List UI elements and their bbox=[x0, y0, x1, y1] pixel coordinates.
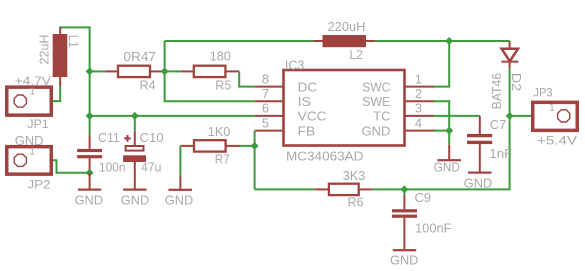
svg-text:VCC: VCC bbox=[298, 109, 327, 124]
pin 8 stub bbox=[255, 86, 284, 88]
inductor L1 bbox=[53, 27, 68, 86]
svg-text:1K0: 1K0 bbox=[208, 124, 231, 139]
wire top rail right bbox=[376, 40, 510, 42]
svg-text:GND: GND bbox=[15, 133, 44, 148]
wire node B down to pin 7 bbox=[165, 71, 255, 101]
wire output feedback right bbox=[404, 116, 509, 189]
node output junction bbox=[506, 112, 514, 120]
svg-text:FB: FB bbox=[298, 123, 316, 138]
resistor R4 bbox=[105, 66, 164, 77]
wire D2 to output node bbox=[509, 68, 511, 116]
svg-text:7: 7 bbox=[262, 86, 269, 101]
wire SWE to gnd node bbox=[434, 101, 449, 130]
svg-text:SWC: SWC bbox=[362, 79, 390, 94]
connector JP3 bbox=[533, 102, 578, 130]
svg-text:IS: IS bbox=[298, 94, 312, 109]
svg-text:R4: R4 bbox=[140, 78, 156, 93]
svg-text:JP3: JP3 bbox=[533, 86, 552, 100]
svg-text:SWE: SWE bbox=[362, 94, 390, 109]
op-amp IC3 MC34063AD box bbox=[284, 70, 405, 146]
svg-text:C11: C11 bbox=[98, 130, 120, 145]
pin 5 stub bbox=[255, 130, 284, 132]
svg-text:4: 4 bbox=[415, 115, 422, 130]
wire node A down to VCC row bbox=[89, 71, 91, 116]
svg-text:GND: GND bbox=[165, 192, 193, 207]
wire C10 top pin bbox=[134, 116, 136, 131]
resistor R7 bbox=[180, 140, 240, 151]
ground below pin 4 bbox=[438, 131, 461, 162]
resistor R5 bbox=[181, 66, 239, 77]
node A junction bbox=[86, 67, 94, 75]
wire node B up to top rail bbox=[164, 41, 166, 71]
node SWC junction bbox=[445, 37, 453, 45]
svg-text:3: 3 bbox=[415, 101, 422, 116]
pin 6 stub bbox=[255, 115, 284, 117]
svg-text:BAT46: BAT46 bbox=[490, 73, 504, 110]
wire R7 left down bbox=[179, 146, 181, 175]
connector JP1 bbox=[7, 87, 52, 115]
node C11 bottom junction bbox=[86, 169, 94, 177]
wire pin 4 to gnd node bbox=[434, 130, 449, 132]
svg-text:GND: GND bbox=[390, 253, 418, 268]
wire FB down to R6 row bbox=[254, 146, 256, 190]
inductor L2 bbox=[314, 35, 376, 47]
pin 2 stub bbox=[405, 100, 435, 102]
diode D2 BAT46 bbox=[501, 41, 518, 68]
svg-text:GND: GND bbox=[121, 193, 149, 208]
svg-text:6: 6 bbox=[262, 101, 269, 116]
node C9 junction bbox=[400, 185, 408, 193]
svg-text:+5.4V: +5.4V bbox=[537, 134, 578, 148]
svg-text:GND: GND bbox=[362, 123, 391, 138]
svg-text:5: 5 bbox=[262, 115, 269, 130]
svg-text:0R47: 0R47 bbox=[123, 49, 156, 64]
svg-text:2: 2 bbox=[415, 86, 422, 101]
node FB junction bbox=[251, 142, 259, 150]
svg-text:R6: R6 bbox=[348, 194, 364, 209]
svg-text:3K3: 3K3 bbox=[343, 168, 365, 183]
svg-text:MC34063AD: MC34063AD bbox=[286, 149, 363, 164]
wire C11 top pin bbox=[89, 116, 91, 136]
node B junction bbox=[161, 67, 169, 75]
wire TC row bbox=[434, 115, 480, 117]
svg-text:GND: GND bbox=[464, 175, 492, 190]
svg-text:1: 1 bbox=[549, 103, 555, 114]
capacitor C11 bbox=[77, 136, 102, 173]
pin 7 stub bbox=[255, 100, 284, 102]
svg-text:180: 180 bbox=[210, 49, 231, 64]
wire L1 top to node A bbox=[60, 27, 89, 71]
pin 3 stub bbox=[405, 115, 435, 117]
connector JP2 bbox=[7, 147, 52, 175]
wire R5 to pin 8 bbox=[239, 71, 255, 86]
svg-text:D2: D2 bbox=[509, 73, 523, 91]
svg-text:JP1: JP1 bbox=[27, 117, 48, 131]
wire JP1 to L1 bbox=[26, 87, 60, 102]
svg-text:GND: GND bbox=[75, 193, 103, 208]
svg-text:1: 1 bbox=[29, 87, 35, 98]
wire node B to R5 bbox=[165, 70, 181, 72]
svg-text:1nF: 1nF bbox=[489, 146, 512, 161]
resistor R6 bbox=[315, 184, 373, 195]
ground below C11 bbox=[78, 173, 101, 191]
svg-text:C7: C7 bbox=[490, 117, 507, 132]
svg-text:100n: 100n bbox=[99, 160, 126, 175]
wire FB riser bbox=[254, 131, 256, 146]
capacitor C10 bbox=[123, 131, 146, 188]
svg-text:IC3: IC3 bbox=[285, 58, 304, 73]
svg-text:R7: R7 bbox=[215, 151, 230, 166]
svg-text:100nF: 100nF bbox=[415, 220, 452, 235]
ground below C7 bbox=[468, 172, 491, 174]
plus sign C10 bbox=[124, 135, 131, 142]
wire VCC row bbox=[90, 115, 255, 117]
svg-text:+4.7V: +4.7V bbox=[15, 74, 52, 88]
ground below C9 bbox=[393, 249, 416, 251]
node VCC junction at C11 bbox=[86, 112, 94, 120]
wire SWC riser bbox=[434, 41, 449, 87]
svg-text:220uH: 220uH bbox=[328, 19, 366, 34]
pin 4 stub bbox=[405, 130, 435, 132]
wire output to JP3 bbox=[510, 115, 557, 117]
wire node A to R4 bbox=[90, 70, 105, 72]
svg-text:C10: C10 bbox=[140, 130, 164, 145]
pin 1 stub bbox=[405, 86, 435, 88]
svg-text:L1: L1 bbox=[66, 35, 80, 48]
svg-text:8: 8 bbox=[262, 71, 269, 86]
wire FB to R7 bbox=[240, 145, 254, 147]
wire R6 to node C9 bbox=[373, 188, 405, 190]
wire to R6 bbox=[255, 188, 315, 190]
node SWE gnd junction bbox=[445, 127, 453, 135]
svg-text:47u: 47u bbox=[141, 160, 162, 175]
svg-text:TC: TC bbox=[373, 109, 390, 124]
wire JP2 to node C11 bottom bbox=[26, 160, 89, 173]
ground below C10 bbox=[123, 189, 146, 191]
wire top rail left bbox=[165, 40, 314, 42]
capacitor C7 bbox=[467, 116, 492, 172]
capacitor C9 bbox=[392, 189, 417, 249]
svg-text:GND: GND bbox=[434, 159, 460, 174]
svg-text:1: 1 bbox=[415, 71, 422, 86]
svg-text:R5: R5 bbox=[215, 78, 231, 93]
node junction at C10 bbox=[131, 112, 139, 120]
svg-text:22uH: 22uH bbox=[37, 35, 51, 65]
ground below R7 bbox=[169, 175, 192, 191]
svg-text:C9: C9 bbox=[415, 190, 432, 205]
svg-text:DC: DC bbox=[298, 79, 318, 94]
svg-text:L2: L2 bbox=[350, 47, 363, 62]
svg-text:JP2: JP2 bbox=[28, 177, 51, 191]
